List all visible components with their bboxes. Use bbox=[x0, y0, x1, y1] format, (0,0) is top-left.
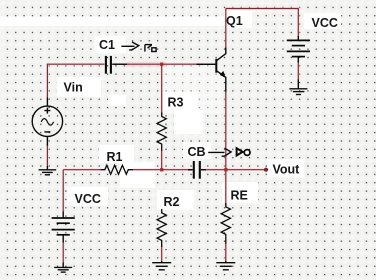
wire VCC bottom battery to rail bbox=[62, 170, 64, 212]
wire R3 bottom to bottom rail bbox=[161, 151, 163, 170]
capacitor C1 bbox=[106, 56, 127, 74]
svg-text:CB: CB bbox=[188, 145, 206, 159]
svg-text:VCC: VCC bbox=[312, 16, 338, 30]
junction node at CB/emitter/Vout bbox=[224, 168, 227, 171]
resistor R2 bbox=[157, 209, 166, 247]
voltage source Vin bbox=[32, 98, 62, 146]
svg-text:RE: RE bbox=[231, 189, 248, 203]
svg-text:VCC: VCC bbox=[75, 192, 101, 206]
stronger selection glow on C1-node wire bbox=[126, 61, 166, 67]
cursor arrow near CB bbox=[208, 148, 231, 156]
wire battery bottom to ground (bottom left) bbox=[62, 242, 64, 263]
wire Vin top to C1 bbox=[47, 64, 104, 97]
cursor arrow near C1 bbox=[121, 42, 138, 50]
wire C1 to Q1 base bbox=[113, 63, 216, 65]
wire RE bottom to ground bbox=[225, 243, 227, 262]
wire node to R3 top bbox=[161, 64, 163, 114]
wire R2 bottom to ground bbox=[161, 247, 163, 262]
wire top rail to VCC battery bbox=[226, 9, 298, 37]
svg-text:Vout: Vout bbox=[273, 162, 301, 176]
wire emitter down to RE bbox=[225, 91, 227, 206]
svg-text:R3: R3 bbox=[168, 96, 184, 110]
wire CB to Vout bbox=[201, 169, 266, 171]
svg-text:R2: R2 bbox=[164, 195, 180, 209]
wire collector vertical bbox=[225, 9, 227, 49]
resistor RE bbox=[221, 203, 230, 244]
svg-text:Q1: Q1 bbox=[226, 14, 243, 28]
wire R1 to CB bbox=[133, 169, 193, 171]
battery VCC (top right) bbox=[287, 36, 310, 63]
junction node at R1/R2/R3/CB bbox=[160, 168, 163, 171]
ground under R2 bbox=[152, 261, 171, 270]
ground under RE bbox=[216, 261, 235, 270]
Vout arrowhead bbox=[264, 168, 268, 172]
ghost inverter icon near CB bbox=[237, 148, 250, 155]
resistor R3 bbox=[157, 113, 166, 151]
wire halos (jpeg-like pink glow) bbox=[47, 9, 298, 264]
wire Vin bottom to ground bbox=[46, 144, 48, 167]
emitter arrow of Q1 bbox=[220, 71, 226, 78]
junction node at C1/R3/base bbox=[160, 63, 163, 66]
capacitor CB bbox=[188, 161, 206, 179]
wire battery to ground (top right) bbox=[297, 61, 299, 80]
resistor R1 bbox=[101, 165, 133, 174]
ground under Vin bbox=[39, 166, 57, 175]
ghost component icon near C1 bbox=[145, 45, 156, 52]
transistor Q1 bbox=[197, 48, 226, 92]
wire rail left: battery to R1 bbox=[63, 169, 101, 171]
light wash region right of R3 node bbox=[162, 65, 223, 114]
battery VCC (bottom left) bbox=[52, 212, 75, 243]
svg-text:R1: R1 bbox=[107, 150, 123, 164]
svg-text:C1: C1 bbox=[99, 38, 115, 52]
svg-text:Vin: Vin bbox=[64, 80, 83, 94]
ground under VCC battery (bottom left) bbox=[54, 263, 72, 273]
white patches bbox=[0, 11, 341, 210]
ground under VCC battery (top right) bbox=[289, 80, 307, 95]
